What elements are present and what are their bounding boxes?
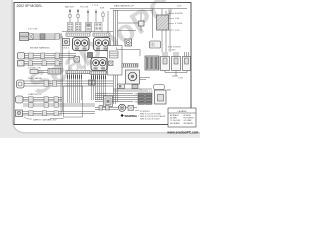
inline switch block	[29, 34, 34, 39]
top right harness labels	[114, 5, 183, 33]
row C wires	[18, 61, 63, 67]
regulator box bottom	[155, 90, 167, 104]
leader labels right	[175, 13, 183, 32]
wire bottom row	[95, 108, 137, 110]
small twin boxes	[89, 80, 96, 85]
label bubble	[154, 85, 165, 90]
inline connector pair 2	[106, 106, 110, 111]
wire labels right of bus	[134, 89, 154, 103]
wire vertical right	[153, 9, 171, 53]
spark plug terminal circles	[69, 10, 97, 13]
dess post	[62, 39, 70, 50]
svg-text:WH WHITE: WH WHITE	[184, 123, 194, 125]
svg-text:1 GN: 1 GN	[178, 78, 183, 80]
to-label	[135, 110, 139, 112]
svg-text:2 RD: 2 RD	[175, 30, 180, 32]
big connector pin strips	[66, 33, 110, 36]
pin strip below connector2	[90, 71, 107, 74]
svg-text:BK BLACK: BK BLACK	[170, 114, 180, 117]
inline diode box	[109, 61, 114, 66]
svg-text:START/STOP: START/STOP	[28, 93, 42, 96]
wire plug leads	[70, 9, 108, 34]
enclosure rectangle	[64, 86, 83, 117]
big connector 3	[91, 58, 107, 71]
regulator rounded box mid	[150, 41, 161, 48]
small relay box	[139, 21, 145, 26]
svg-text:3 GN/BK 2 PU: 3 GN/BK 2 PU	[28, 68, 41, 70]
svg-text:5 GY 1 BK: 5 GY 1 BK	[28, 29, 38, 31]
svg-text:MAG IGN: MAG IGN	[65, 6, 74, 9]
inline connector A2	[55, 34, 59, 40]
svg-text:PTO IGN: PTO IGN	[80, 7, 89, 9]
svg-text:4 BK/RD: 4 BK/RD	[175, 13, 183, 15]
buzzer assembly	[95, 96, 150, 113]
wire under coils	[165, 71, 187, 77]
stator comb block	[145, 56, 159, 70]
small box after buzzer	[128, 105, 134, 110]
engine multi pin connector	[20, 33, 29, 41]
cdi module dark	[86, 23, 92, 32]
coil box 1	[161, 52, 170, 71]
page border frame	[14, 3, 191, 125]
rectifier block	[95, 23, 103, 32]
inline connector pair 1	[99, 106, 103, 111]
connector C	[18, 61, 25, 67]
inline connector A1	[40, 34, 45, 40]
svg-text:2 BK: 2 BK	[175, 18, 180, 20]
scanner edge left and bottom	[0, 0, 200, 138]
wire solenoid to stator	[140, 78, 151, 80]
nested module	[104, 96, 113, 107]
svg-text:TO MPEM 1: TO MPEM 1	[140, 111, 150, 113]
svg-text:WIRE ID COLOR CODES: WIRE ID COLOR CODES	[140, 119, 160, 121]
wire stub	[140, 13, 142, 31]
spark plug caps group top	[65, 5, 108, 34]
fuel sender connector	[17, 80, 25, 88]
inline resistor blocks	[69, 13, 104, 18]
solenoid pin strip	[122, 64, 138, 68]
coil box 3	[183, 52, 191, 71]
svg-text:6 BK 2 RD/PU: 6 BK 2 RD/PU	[168, 47, 181, 49]
safety label	[24, 117, 32, 119]
svg-text:SAFETY LANYARD SW: SAFETY LANYARD SW	[33, 119, 57, 122]
coil box 2	[172, 52, 181, 71]
svg-text:LEGEND: LEGEND	[178, 111, 187, 113]
ignition coil ladder 1	[67, 23, 73, 32]
svg-text:1 YL/RD: 1 YL/RD	[168, 50, 176, 52]
svg-text:2 TO 3: 2 TO 3	[92, 5, 99, 7]
engine connector row A	[20, 29, 63, 50]
big connector 2	[94, 38, 111, 51]
row D cluster	[28, 68, 61, 75]
svg-text:4 BK: 4 BK	[100, 8, 105, 10]
wire fanout below connectors	[68, 51, 106, 104]
wire to stator	[117, 48, 141, 57]
svg-text:ENGINE HARNESS: ENGINE HARNESS	[30, 47, 50, 50]
legend table	[168, 108, 196, 127]
wire top bus	[110, 9, 187, 11]
svg-text:FUEL GAUGE: FUEL GAUGE	[28, 77, 43, 80]
small dark component	[88, 53, 93, 58]
hatched pin block	[48, 69, 61, 75]
ignition coil ladder 2	[75, 23, 81, 32]
wire bundle B	[25, 54, 77, 60]
small component X	[74, 57, 80, 63]
svg-text:WARNING :: WARNING :	[125, 114, 139, 118]
svg-text:MAIN HARNESS 2P: MAIN HARNESS 2P	[114, 5, 134, 8]
wire bundle A	[29, 34, 63, 40]
svg-text:2 RD: 2 RD	[177, 6, 182, 8]
wire vertical bus mid	[114, 10, 118, 104]
wire label ticks	[68, 75, 106, 79]
wire to enclosure	[50, 118, 64, 120]
svg-text:D.E.S.S.: D.E.S.S.	[62, 48, 70, 50]
switch connector	[16, 96, 24, 103]
connector B	[18, 53, 25, 60]
row G inline connectors	[29, 103, 59, 107]
buzzer concentric	[118, 104, 125, 111]
small box left of solenoid	[118, 84, 125, 89]
fuse block rows	[138, 93, 152, 104]
row G wires	[23, 104, 95, 106]
mpem module box	[108, 46, 123, 76]
row F start stop	[16, 93, 63, 103]
row E fuel gauge	[17, 77, 114, 88]
wire vertical bus left	[61, 34, 63, 114]
svg-text:6 YL/BK: 6 YL/BK	[175, 23, 183, 25]
svg-text:GN GREEN: GN GREEN	[170, 123, 180, 125]
svg-text:2 YL: 2 YL	[139, 89, 142, 91]
wire mid horizontals	[62, 23, 140, 33]
svg-text:www.seadooPC.com: www.seadooPC.com	[166, 131, 198, 135]
warning note	[121, 114, 166, 121]
row B gauge wires	[18, 53, 77, 60]
big connector 1	[73, 38, 90, 51]
inline fuse mid	[132, 85, 138, 89]
svg-text:GY GRAY: GY GRAY	[184, 119, 193, 122]
mid small solenoid	[125, 39, 132, 46]
starter solenoid circle	[126, 70, 140, 84]
svg-text:2002 SP MODEL: 2002 SP MODEL	[17, 4, 43, 8]
row H safety switch	[16, 110, 96, 122]
pin strip below connector1	[66, 71, 90, 74]
bus to fuse rows	[95, 89, 152, 102]
regulator box top right	[157, 15, 169, 30]
